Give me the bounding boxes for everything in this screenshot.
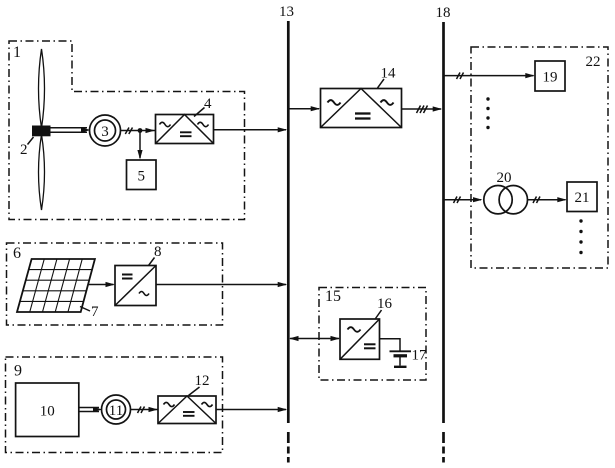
wire bus 18 to transformer 20: [444, 197, 483, 202]
phase marks after transformer: [533, 197, 540, 204]
svg-text:12: 12: [195, 373, 210, 389]
svg-text:16: 16: [377, 296, 393, 312]
wire converter 12 to bus 13: [216, 407, 287, 412]
svg-text:19: 19: [543, 70, 558, 86]
svg-text:5: 5: [138, 169, 146, 185]
load 21 box: [567, 182, 597, 212]
svg-text:21: 21: [575, 190, 590, 206]
wire solar panel to converter 8: [88, 282, 115, 287]
phase marks (3) on converter 14 output: [417, 106, 428, 114]
svg-text:20: 20: [497, 170, 512, 186]
label 4 with leader: [194, 96, 212, 117]
wire converter 8 to bus 13: [156, 282, 287, 287]
converter 12 (AC-DC-AC): [158, 396, 216, 424]
svg-text:1: 1: [13, 44, 21, 61]
box 5 (controller): [127, 160, 157, 190]
phase marks on generator wire: [125, 128, 132, 135]
wire machine 11 to converter 12: [131, 407, 159, 412]
svg-text:3: 3: [101, 124, 109, 140]
hub 2 (black rectangle): [32, 126, 51, 137]
enclosure 1 (wind generation unit, dash-dot L-shape): [9, 41, 245, 220]
enclosure 9 (diesel/backup unit, dash-dot): [6, 357, 223, 453]
battery 17: [390, 351, 412, 367]
generator 3 (double circle): [90, 115, 121, 146]
bus 13 dashed continuation: [287, 432, 290, 463]
svg-text:9: 9: [14, 363, 22, 380]
label 12 with leader: [189, 373, 210, 396]
converter 8 (DC-AC inverter): [115, 266, 156, 306]
svg-text:8: 8: [154, 244, 162, 260]
svg-text:15: 15: [325, 288, 341, 305]
wire converter 14 to bus 18: [402, 106, 443, 111]
wire converter 16 to battery 17: [380, 339, 401, 351]
svg-text:4: 4: [204, 96, 212, 112]
svg-text:11: 11: [109, 403, 123, 419]
enclosure 6 (PV unit, dash-dot): [7, 243, 223, 325]
bidirectional wire bus 13 to converter 16: [289, 336, 340, 341]
converter 14 (AC-DC-AC tie converter): [321, 89, 402, 128]
svg-text:22: 22: [586, 54, 601, 70]
wire bus 18 to load 19: [444, 73, 535, 78]
load 19 box: [535, 61, 565, 91]
svg-text:18: 18: [436, 5, 451, 21]
svg-text:17: 17: [412, 348, 428, 364]
shaft (double line) box 10 to machine 11: [79, 407, 103, 412]
ellipsis dots below load 19: [486, 97, 489, 129]
label 7 with leader: [80, 304, 99, 320]
enclosure 22 (loads area, dash-dot): [471, 47, 608, 268]
solar panel 7 (parallelogram grid): [17, 259, 95, 312]
wire transformer 20 to load 21: [527, 197, 567, 202]
ellipsis dots below load 21: [579, 219, 582, 254]
bus 18 dashed continuation: [442, 432, 445, 463]
node junction to box 5: [138, 128, 143, 133]
converter 4 (AC-DC-AC): [156, 115, 214, 144]
svg-text:6: 6: [13, 245, 21, 262]
label 2 with leader: [20, 137, 34, 158]
enclosure 15 (storage unit, dash-dot): [319, 288, 426, 381]
bus 18 (grid bus vertical line): [442, 22, 445, 423]
box 10 (engine): [16, 383, 79, 437]
svg-text:2: 2: [20, 142, 28, 158]
wire generator 3 to converter 4: [121, 128, 156, 133]
svg-text:14: 14: [381, 66, 397, 82]
machine 11 (double circle): [102, 395, 131, 424]
label 8 with leader: [149, 244, 162, 266]
wire bus 13 to converter 14: [288, 106, 320, 111]
label 16 with leader: [376, 296, 393, 319]
label 14 with leader: [378, 66, 397, 89]
phase marks on load 19 wire: [457, 73, 464, 80]
svg-text:7: 7: [91, 304, 99, 320]
svg-text:10: 10: [40, 404, 55, 420]
wire converter 4 to bus 13: [214, 127, 288, 132]
phase marks on transformer wire: [454, 197, 461, 204]
converter 16 (bidirectional AC-DC): [340, 319, 380, 359]
svg-text:13: 13: [279, 4, 294, 20]
bus 13 (AC bus vertical line): [287, 21, 290, 423]
wire junction down to box 5: [137, 131, 142, 160]
phase marks on machine 11 wire: [138, 407, 145, 414]
shaft (double line) from hub to generator: [51, 127, 91, 132]
transformer 20 (two overlapping circles): [484, 186, 528, 214]
wind turbine blades: [39, 49, 45, 210]
